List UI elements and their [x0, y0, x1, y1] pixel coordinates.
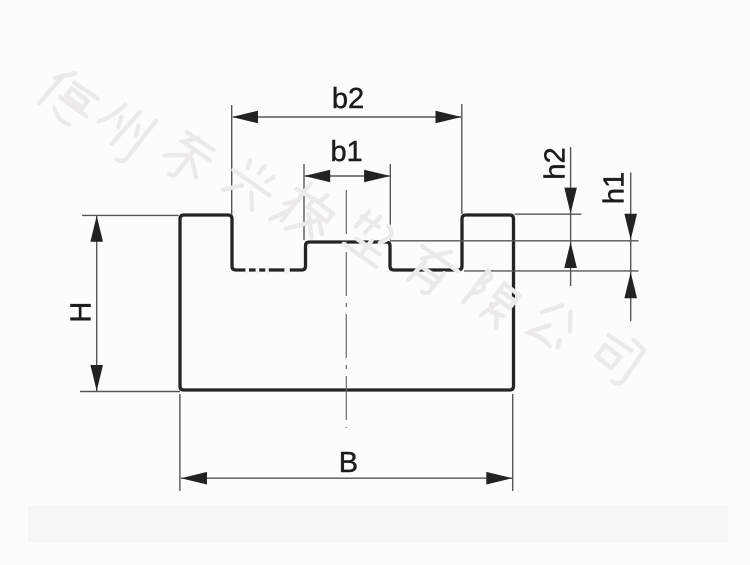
svg-text:B: B [339, 447, 358, 479]
b1 arrow right [364, 170, 390, 183]
B dimension [180, 394, 513, 491]
b1 dimension [304, 164, 390, 240]
b1 ext right [389, 164, 391, 240]
svg-text:H: H [66, 302, 98, 323]
h1 arrow down [624, 214, 637, 240]
b1 ext left [303, 164, 305, 240]
H ext top [82, 214, 179, 216]
svg-text:b1: b1 [330, 136, 362, 168]
profile outline [180, 215, 514, 390]
b2 ext right [461, 104, 463, 214]
H arrow down [90, 365, 103, 391]
H dimension [80, 215, 180, 391]
h1 arrow up [624, 272, 637, 298]
watermark company name (light gray, diagonal) [37, 65, 647, 386]
B ext left [179, 394, 181, 491]
h2 dim line [570, 147, 572, 286]
h2 arrow up [564, 242, 577, 268]
b2 ext left [231, 105, 233, 215]
plateau level line [390, 240, 639, 242]
centerline [345, 190, 347, 428]
notch level line [464, 270, 639, 272]
h2 dimension [390, 147, 639, 321]
svg-text:b2: b2 [332, 83, 364, 115]
svg-text:h2: h2 [540, 147, 572, 179]
B arrow right [486, 472, 512, 485]
H dim line [96, 216, 98, 391]
left notch bottom gaps [245, 267, 289, 274]
svg-text:h1: h1 [599, 172, 631, 204]
h2 arrow down [564, 188, 577, 214]
b2 arrow right [436, 111, 462, 124]
H ext bottom [80, 391, 180, 393]
b2 arrow left [232, 111, 258, 124]
B ext right [512, 394, 514, 491]
tab-top tick [515, 213, 582, 215]
b1 arrow left [304, 170, 330, 183]
B dim line [181, 477, 512, 479]
b2 dim line [233, 116, 461, 118]
b1 dim line [305, 175, 390, 177]
b2 dimension [232, 104, 462, 215]
faint bottom artifact band [28, 506, 728, 542]
H arrow up [90, 216, 103, 242]
B arrow left [181, 472, 207, 485]
h1 dim line [630, 173, 632, 322]
